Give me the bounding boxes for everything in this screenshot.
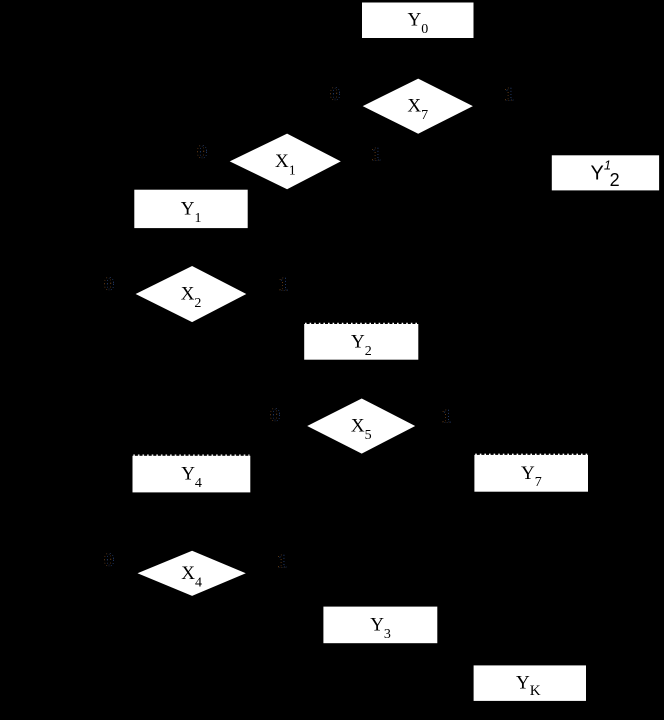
process box Y4 <box>133 455 251 492</box>
decision diamond X4 <box>138 551 246 596</box>
process box Y7 <box>474 454 588 491</box>
branch label 0 (X4 left) <box>104 550 115 571</box>
svg-text:0: 0 <box>104 274 114 295</box>
branch label 0 (X5 left) <box>270 405 281 426</box>
decision diamond X7 <box>363 79 473 134</box>
svg-text:0: 0 <box>197 142 207 163</box>
process box Y2 <box>304 323 418 359</box>
branch label 1 (X1 right) <box>371 144 382 165</box>
svg-text:1: 1 <box>372 144 382 165</box>
process box Y1 <box>134 190 247 228</box>
svg-text:0: 0 <box>330 84 340 105</box>
decision diamond X2 <box>136 266 247 322</box>
branch label 0 (X2 left) <box>104 274 115 295</box>
process box YK <box>474 665 586 701</box>
branch label 1 (X7 right) <box>504 84 515 105</box>
branch label 1 (X5 right) <box>441 406 452 427</box>
process box Y3 <box>323 607 437 644</box>
process box Y12 (superscript 1, subscript 2) <box>552 155 659 190</box>
svg-text:0: 0 <box>270 405 280 426</box>
branch label 0 (X1 left) <box>197 142 208 163</box>
decision diamond X1 <box>230 134 341 190</box>
branch label 0 (X7 left) <box>330 84 341 105</box>
svg-text:0: 0 <box>104 550 114 571</box>
svg-text:1: 1 <box>278 551 288 572</box>
branch label 1 (X4 right) <box>277 551 288 572</box>
decision diamond X5 <box>307 399 415 454</box>
svg-text:1: 1 <box>442 406 452 427</box>
svg-text:1: 1 <box>279 274 289 295</box>
process box Y0 <box>362 3 474 39</box>
svg-text:1: 1 <box>505 84 515 105</box>
branch label 1 (X2 right) <box>278 274 289 295</box>
